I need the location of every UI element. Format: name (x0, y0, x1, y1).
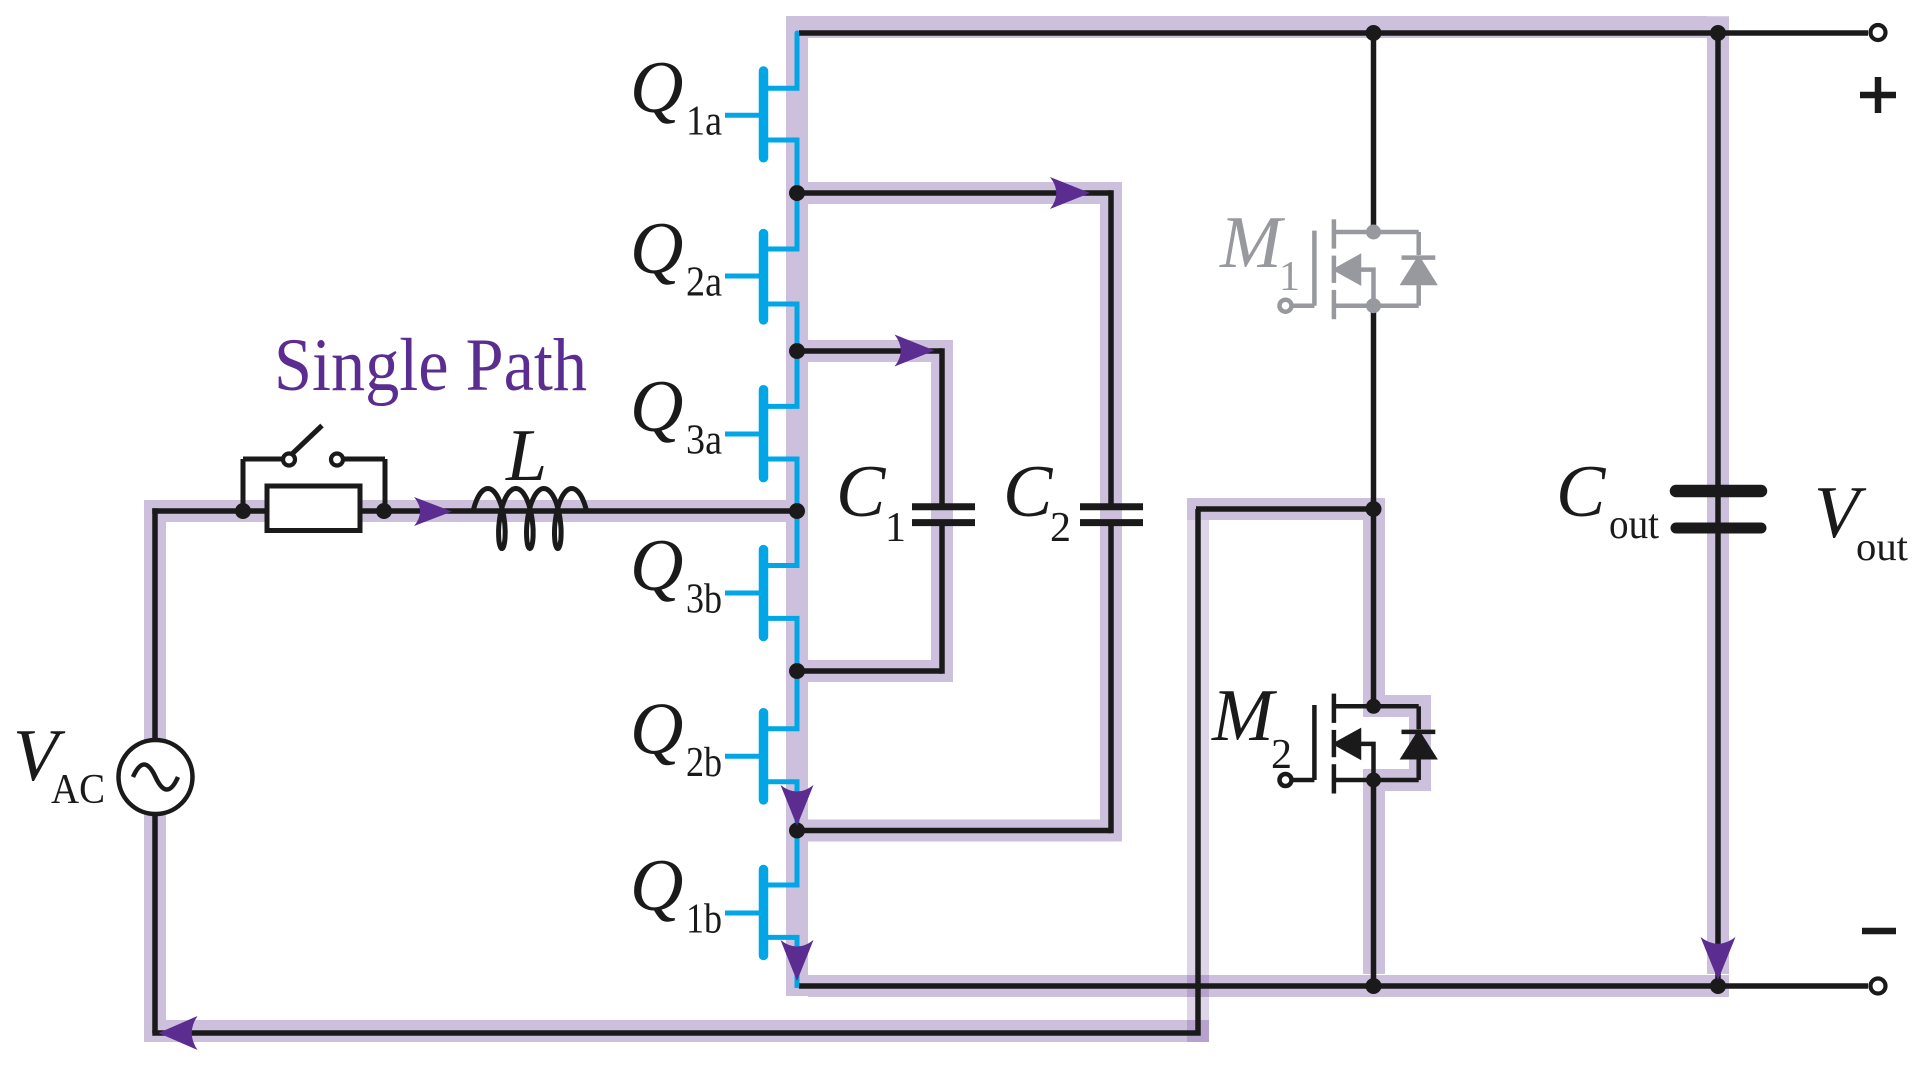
wire highlight band: transistor-chain spine (786, 16, 808, 996)
svg-text:out: out (1856, 524, 1908, 569)
wire: Cout vertical (1715, 33, 1721, 986)
wire: M1 source to M2 drain (1371, 306, 1377, 706)
wire: C1 upper vertical (939, 348, 945, 503)
wire: M2 source to bottom rail (1371, 780, 1377, 986)
svg-text:L: L (505, 415, 547, 497)
wire: cyan spine Q3a-Q3b (795, 459, 800, 566)
wire: branch junction to M1/M2 node (1196, 506, 1374, 512)
wire: bottom rail (799, 983, 1868, 989)
wire: cyan spine top segment (795, 33, 800, 88)
switch S (bypass) (243, 426, 385, 512)
svg-text:Q: Q (630, 525, 683, 607)
wire: cyan spine Q2a-Q3a (795, 304, 800, 406)
svg-text:M: M (1219, 202, 1286, 284)
wire: input wire (152, 508, 797, 514)
svg-text:Q: Q (630, 47, 683, 129)
arrow: input current direction (right) (414, 497, 452, 526)
svg-text:Q: Q (630, 366, 683, 448)
wire: junction to C2 top (797, 190, 1111, 196)
wire: C2 lower vertical (1108, 526, 1114, 833)
node: bottom rail / Cout (1710, 978, 1726, 994)
svg-text:out: out (1609, 502, 1659, 548)
node: top rail / M1 drain branch (1366, 25, 1382, 41)
svg-text:2b: 2b (686, 740, 722, 786)
svg-text:Q: Q (630, 208, 683, 290)
wire highlight band: input wire, left rail, lower return wire (155, 511, 1209, 1031)
capacitor C1 plates (912, 507, 975, 523)
capacitor Cout plates (1676, 491, 1761, 528)
svg-text:AC: AC (51, 767, 105, 813)
transistor Q3a (725, 390, 800, 478)
arrow: Cout branch downward (1701, 937, 1736, 980)
wire: top rail (799, 30, 1868, 36)
arrow: spine downward above Q2b/Q1b junction (781, 785, 814, 826)
node: spine junction Q3b/Q2b (789, 663, 805, 679)
wire highlight band: middle vertical return (light) (1187, 520, 1209, 1042)
plus sign (1860, 77, 1896, 113)
wire: cyan spine Q3b-Q2b (795, 618, 800, 728)
source V_AC (119, 740, 193, 814)
wire: cyan spine bottom segment (795, 937, 800, 988)
wire: junction to C1 top (797, 348, 942, 354)
svg-text:2a: 2a (686, 260, 722, 306)
svg-text:Single Path: Single Path (274, 324, 587, 407)
terminal + (top right) (1871, 25, 1886, 40)
node: M1 source / return branch (1366, 501, 1382, 517)
svg-text:3b: 3b (686, 577, 722, 623)
mosfet M2 (on, black) (1280, 694, 1436, 794)
svg-text:C: C (1003, 451, 1054, 533)
wire highlight band: top rail and Cout branch (808, 16, 1718, 974)
svg-text:C: C (836, 451, 887, 533)
resistor R (bypass box) (267, 486, 360, 531)
node: M2 source / bottom rail (1366, 978, 1382, 994)
svg-text:1b: 1b (686, 897, 722, 943)
arrow: toward C2 (right) (1050, 177, 1090, 209)
wire: C2 upper vertical (1108, 190, 1114, 503)
node: spine junction Q1a/Q2a (789, 185, 805, 201)
terminal - (bottom right) (1871, 979, 1886, 994)
wire: C1 lower vertical (939, 526, 945, 674)
wire: C1 bottom to junction (797, 668, 942, 674)
capacitor C2 plates (1080, 507, 1143, 523)
wire: cyan spine Q1a-Q2a (795, 140, 800, 249)
svg-text:3a: 3a (686, 418, 722, 464)
node: spine junction Q2a/Q3a (789, 343, 805, 359)
arrow: toward C1 (right) (895, 335, 935, 367)
svg-text:C: C (1556, 451, 1607, 533)
transistor Q3b (725, 550, 800, 637)
svg-text:1: 1 (885, 505, 906, 551)
node: spine input junction (789, 503, 805, 519)
inductor L (473, 489, 587, 549)
svg-text:M: M (1211, 675, 1278, 757)
svg-text:1a: 1a (686, 99, 722, 145)
wire highlight band: C2 loop (808, 193, 1111, 831)
arrow: spine downward above bottom rail (781, 940, 814, 981)
svg-text:Q: Q (630, 845, 683, 927)
svg-text:1: 1 (1279, 254, 1300, 300)
wire highlight band: bottom rail (808, 975, 1729, 997)
wire: cyan spine Q2b-Q1b (795, 782, 800, 885)
node: switch left junction (235, 503, 251, 519)
transistor Q1b (725, 869, 800, 955)
wire: lower return horizontal (152, 1030, 1200, 1036)
mosfet M1 (off, gray) (1280, 219, 1436, 319)
wire: middle vertical return (1195, 509, 1201, 1036)
wire: left rail vertical (152, 508, 158, 1033)
wire: M1 drain feed from top rail (1371, 33, 1377, 232)
transistor Q2b (725, 713, 800, 800)
svg-text:2: 2 (1271, 732, 1292, 778)
minus sign (1862, 928, 1896, 935)
node: switch right junction (376, 503, 392, 519)
arrow: return current (left) (159, 1016, 198, 1050)
transistor Q2a (725, 234, 800, 320)
transistor Q1a (725, 71, 800, 158)
svg-text:2: 2 (1050, 505, 1071, 551)
wire highlight band: C1 loop (808, 351, 942, 671)
node: top rail / Cout (1710, 25, 1726, 41)
svg-text:Q: Q (630, 688, 683, 770)
wire: C2 bottom to junction (797, 828, 1111, 834)
wire highlight band: M2 branch through body diode (1187, 509, 1420, 974)
node: spine junction Q2b/Q1b (789, 823, 805, 839)
